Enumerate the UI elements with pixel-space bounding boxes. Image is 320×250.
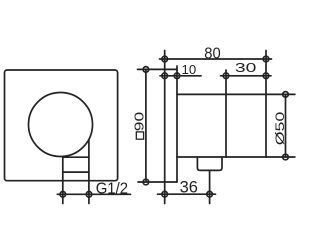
boss rung	[63, 171, 89, 173]
dimension line 80	[160, 58, 272, 60]
boss top chord	[63, 156, 89, 158]
svg-text:G1/2: G1/2	[96, 180, 128, 197]
svg-text:30: 30	[235, 60, 257, 75]
dimension line 90	[145, 69, 147, 182]
side view plate top edge + dim90 extension	[138, 68, 178, 70]
node dim80 left	[162, 56, 168, 62]
dimension line 10	[160, 75, 201, 77]
node front-left connection	[60, 192, 66, 198]
dimension line 50	[285, 94, 287, 157]
node dim30 right	[263, 73, 269, 79]
node dim10 right	[174, 73, 180, 79]
boss right edge	[88, 140, 90, 204]
svg-text:90: 90	[132, 112, 147, 131]
node dim36 left	[162, 191, 168, 197]
body mid edge / extension 30	[225, 70, 227, 157]
svg-text:Ø50: Ø50	[273, 111, 287, 145]
cylinder top edge + dim50 extension	[177, 93, 295, 95]
side view plate left face / extension	[164, 51, 166, 204]
body right face / extension 80	[265, 51, 267, 158]
boss left edge	[62, 157, 64, 203]
node dim80 right	[263, 56, 269, 62]
front view square plate	[5, 70, 118, 181]
svg-text:36: 36	[180, 179, 198, 197]
node dim50 bottom	[283, 154, 289, 160]
node dim90 top	[143, 67, 149, 73]
node dim30 left	[223, 73, 229, 79]
dimension line 36	[158, 193, 216, 195]
outlet stem	[209, 170, 211, 203]
cylinder bottom edge + dim50 extension	[177, 156, 295, 158]
G1/2 leader line	[57, 193, 130, 195]
svg-text:80: 80	[204, 45, 221, 62]
dimension line 30	[221, 75, 271, 77]
node dim90 bottom	[143, 179, 149, 185]
outlet spout	[197, 157, 222, 170]
side view plate bottom edge + dim90 extension	[138, 181, 177, 183]
label square90 symbol	[136, 132, 143, 139]
node dim10 left	[162, 73, 168, 79]
node front-right connection	[86, 192, 92, 198]
svg-text:10: 10	[182, 62, 197, 77]
node dim36 right	[207, 191, 213, 197]
node dim50 top	[283, 92, 289, 98]
front view circle (rosette)	[29, 93, 93, 157]
side view plate right face	[176, 66, 178, 182]
